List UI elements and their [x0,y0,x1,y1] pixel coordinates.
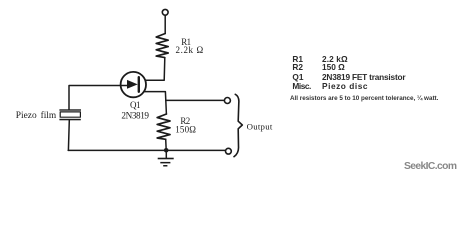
wire source lead [144,92,167,114]
svg-text:Q1: Q1 [130,100,140,110]
svg-text:Output: Output [247,121,273,131]
brace output [234,94,242,156]
wire bottom rail [68,149,225,151]
transistor Q1 [121,72,146,97]
label parts list R2 value [322,63,345,71]
wire output tap [166,99,225,101]
svg-text:Piezo film: Piezo film [16,110,57,121]
note tolerance [290,96,438,102]
wire R2 to ground [165,139,168,150]
ground [158,150,174,166]
node junction dot [164,148,169,153]
wire piezo to ground rail [67,120,70,150]
wire terminal to R1 [164,15,166,33]
svg-text:2.2k Ω: 2.2k Ω [176,45,204,55]
wire gate to piezo [69,86,121,110]
label parts list R2 [292,63,303,71]
piezo film element [59,109,81,120]
terminal V+ [162,9,168,15]
svg-text:150Ω: 150Ω [175,125,196,135]
resistor R1 [156,34,168,58]
label parts list Q1 value [322,73,405,81]
terminal output top [224,98,230,104]
label parts list Q1 [292,73,303,81]
logo SeekIC.com [404,162,456,172]
terminal output bottom [226,148,232,154]
svg-text:2N3819: 2N3819 [121,110,149,120]
label parts list R1 value [322,55,348,63]
wire R1 to drain [145,58,165,81]
label parts list Misc [292,82,311,90]
label parts list R1 [292,55,303,63]
label parts list Misc value [322,82,368,90]
resistor R2 [157,114,170,139]
